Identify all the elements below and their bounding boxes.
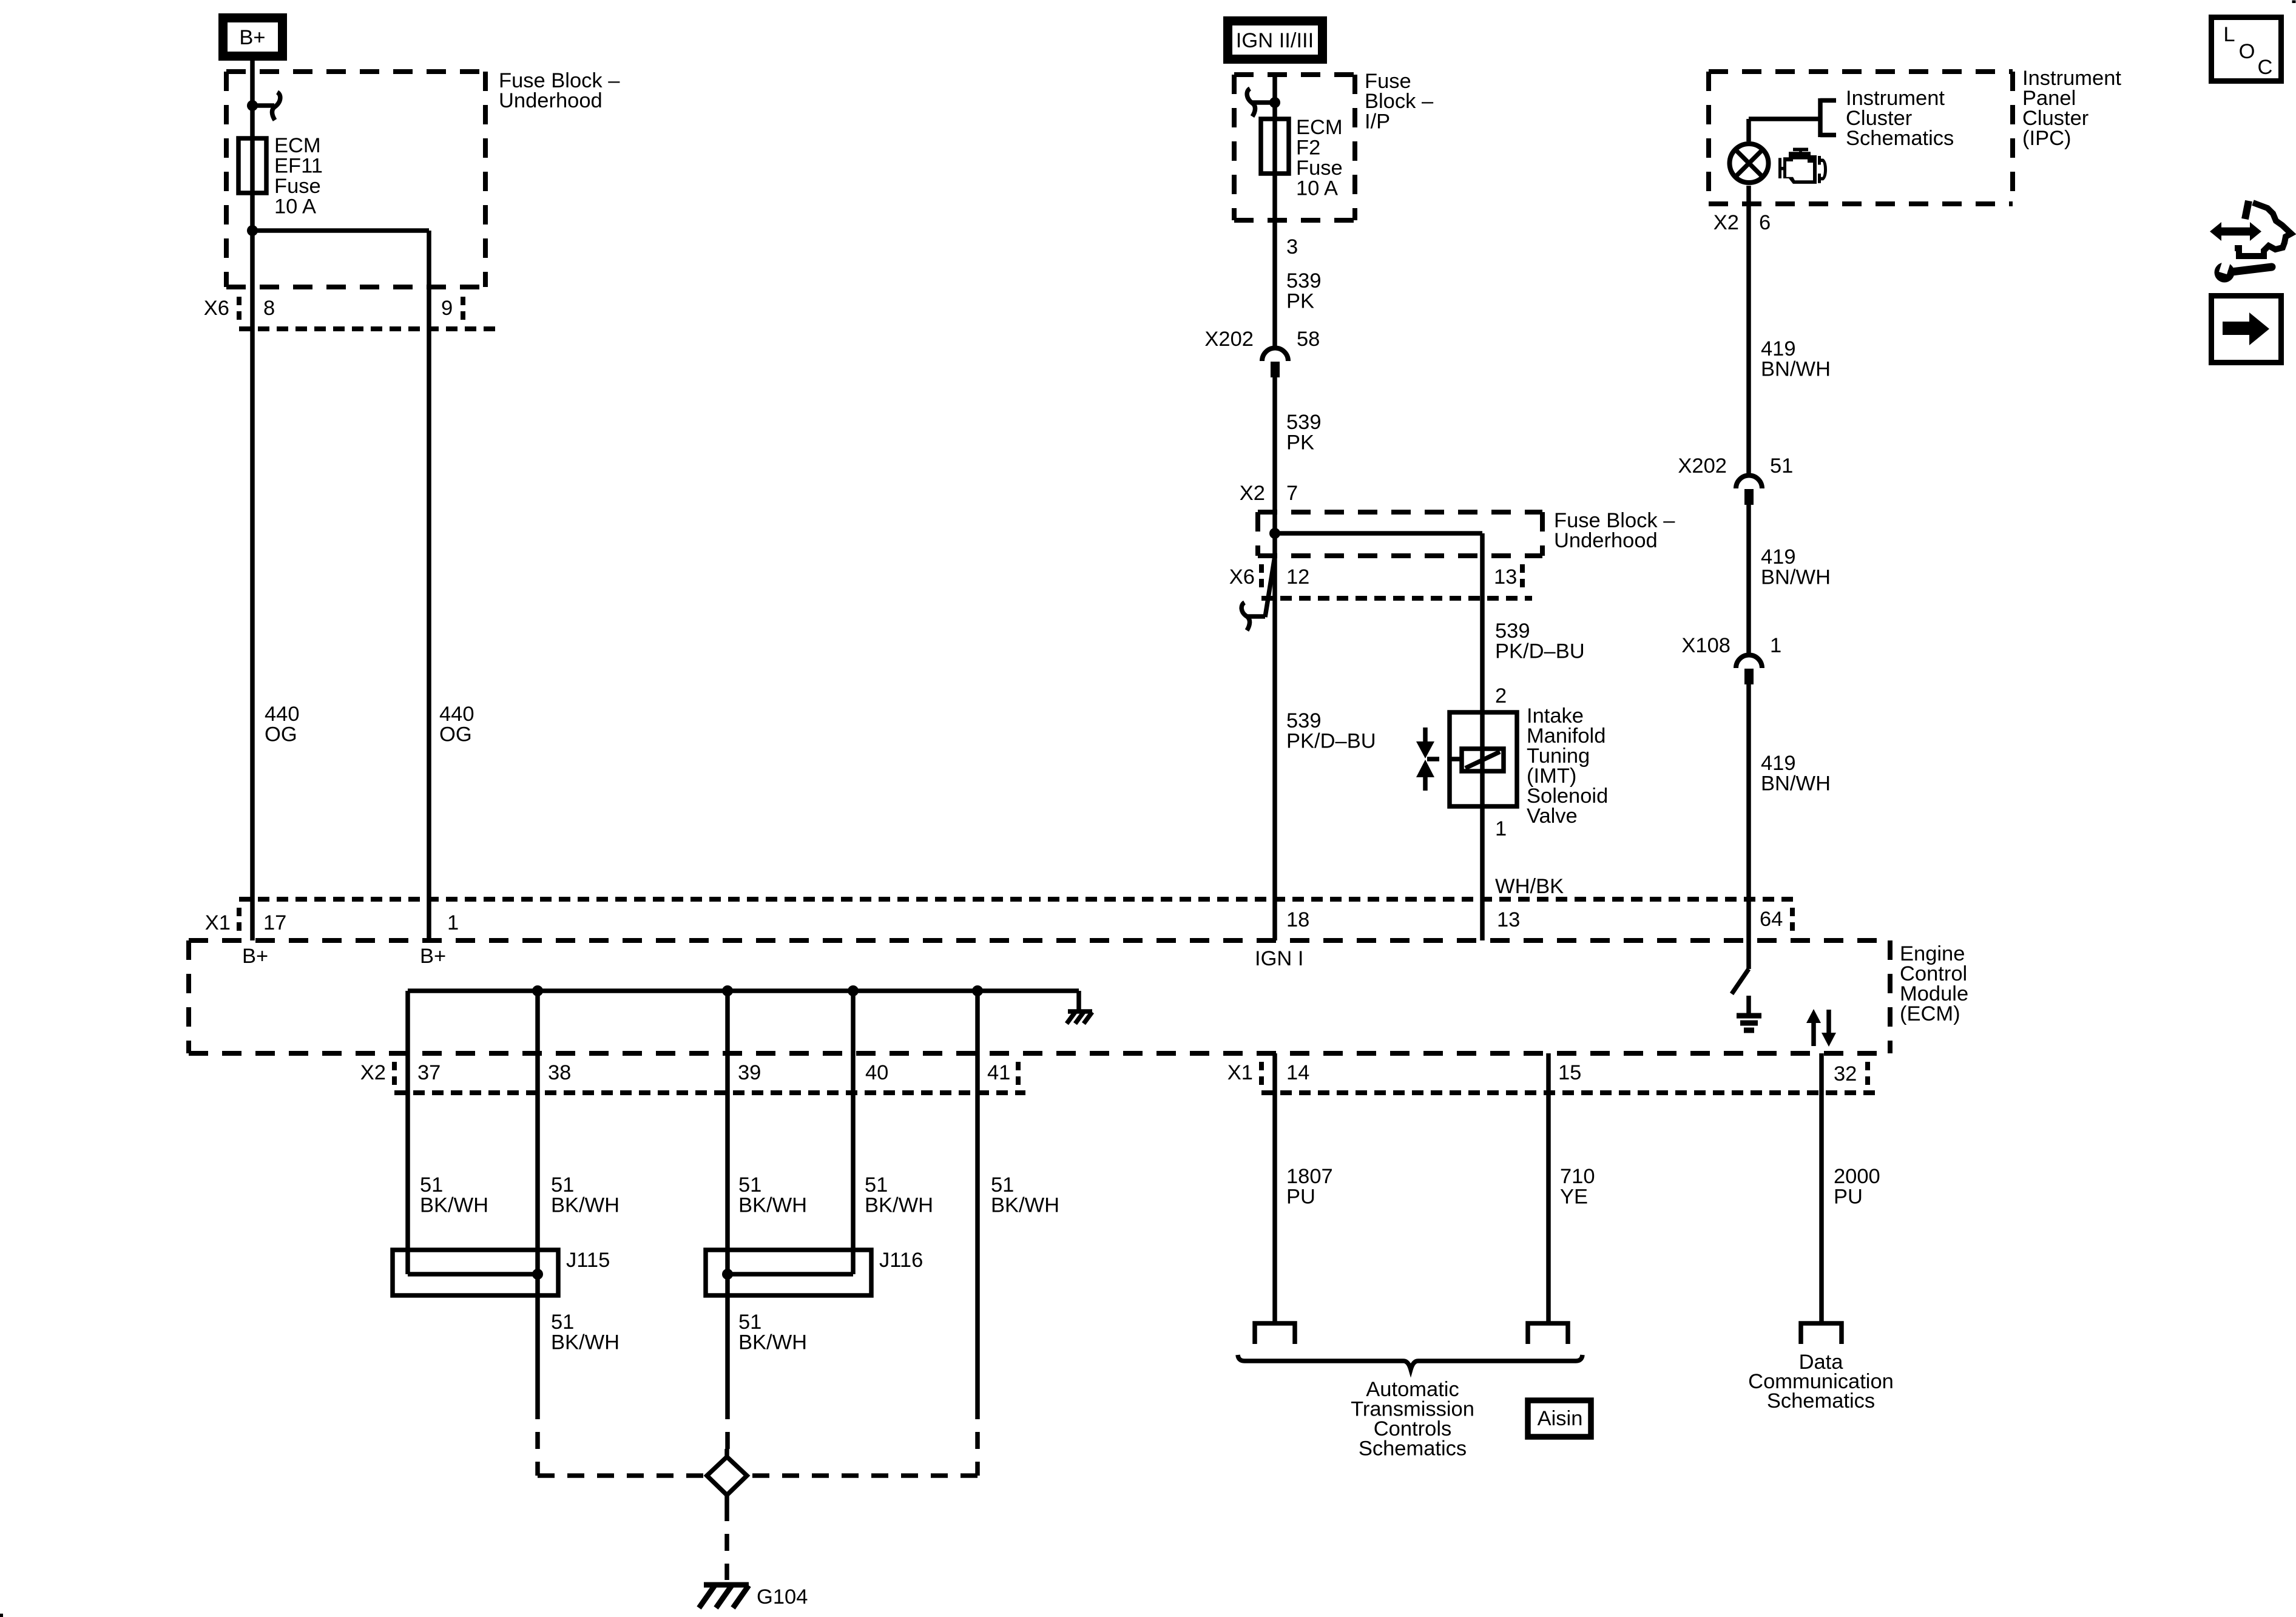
svg-text:419: 419: [1761, 752, 1796, 775]
svg-text:17: 17: [263, 911, 286, 934]
svg-text:12: 12: [1286, 565, 1309, 589]
svg-text:BK/WH: BK/WH: [738, 1194, 807, 1217]
ground: internal ECM ground: [1737, 996, 1761, 1030]
serial data arrows (bidirectional): [1806, 1009, 1836, 1047]
svg-text:F2: F2: [1296, 137, 1320, 160]
svg-text:1: 1: [1495, 817, 1507, 840]
svg-text:13: 13: [1497, 908, 1520, 931]
svg-text:X2: X2: [1240, 482, 1265, 505]
wire label: 440 OG (right): [439, 703, 474, 746]
svg-text:(IPC): (IPC): [2022, 127, 2071, 150]
node: junction dot at clip in I/P block: [1269, 97, 1280, 108]
wire label: 539 PK/D-BU (right wire): [1495, 619, 1585, 663]
wire label: 51 BK/WH (pin 41): [991, 1173, 1059, 1217]
engine icon (check engine): [1778, 148, 1827, 184]
wire label: 51 BK/WH below J115: [551, 1311, 620, 1354]
svg-text:G104: G104: [757, 1585, 808, 1609]
wire: pin 32 down: [1819, 1053, 1824, 1323]
svg-text:BN/WH: BN/WH: [1761, 566, 1831, 589]
svg-text:13: 13: [1494, 565, 1517, 589]
svg-text:8: 8: [263, 297, 275, 320]
svg-text:OG: OG: [439, 723, 472, 746]
wire: 419 BN/WH between X202 and X108: [1746, 505, 1751, 653]
wire: ground pin 41: [975, 991, 980, 1402]
node: bus junction dot pin 38: [532, 985, 543, 996]
svg-text:3: 3: [1286, 235, 1298, 258]
svg-text:BN/WH: BN/WH: [1761, 772, 1831, 795]
label: Instrument Panel Cluster (IPC): [2022, 67, 2121, 150]
svg-text:539: 539: [1495, 619, 1530, 643]
node: bus junction dot pin 39: [722, 985, 733, 996]
forward arrow box: [2212, 296, 2281, 363]
terminal: off-page connector pin 32: [1801, 1323, 1842, 1344]
switch: MIL driver inside ECM: [1732, 940, 1749, 994]
node: junction dot at clip, top-left: [247, 100, 258, 111]
svg-text:440: 440: [265, 703, 300, 726]
svg-text:X202: X202: [1678, 454, 1727, 478]
wire label: 51 BK/WH (pin 38): [551, 1173, 620, 1217]
wire: pin 15 down: [1546, 1053, 1551, 1323]
wire: branch to pin 9: [252, 228, 429, 233]
connector X1 row into ECM (pins 17 and 1): [205, 899, 1793, 934]
wire label: 539 PK/D-BU (left wire): [1286, 709, 1376, 753]
lamp: malfunction indicator lamp: [1730, 144, 1769, 183]
Instrument Panel Cluster dashed box: [1709, 72, 2013, 204]
wire label: 539 PK (upper): [1286, 269, 1322, 313]
svg-text:IGN I: IGN I: [1255, 947, 1304, 970]
svg-text:51: 51: [991, 1173, 1014, 1197]
brace: automatic transmission controls: [1238, 1355, 1582, 1369]
connector X202 pin 51 (inline): [1678, 454, 1793, 505]
label: Instrument Cluster Schematics: [1846, 87, 1954, 150]
svg-text:38: 38: [548, 1061, 571, 1084]
svg-text:2: 2: [1495, 684, 1507, 707]
svg-text:YE: YE: [1560, 1186, 1588, 1209]
svg-text:10 A: 10 A: [1296, 177, 1338, 200]
svg-text:58: 58: [1297, 328, 1320, 351]
svg-text:PK/D–BU: PK/D–BU: [1495, 640, 1585, 663]
svg-text:32: 32: [1834, 1062, 1857, 1085]
connector X108 pin 1 (inline): [1681, 634, 1781, 684]
svg-text:9: 9: [441, 297, 453, 320]
LOC reference box: [2212, 18, 2281, 81]
wire label: 539 PK (lower): [1286, 411, 1322, 454]
svg-text:14: 14: [1286, 1061, 1309, 1084]
wire: ground pin 39: [725, 991, 730, 1402]
svg-text:Fuse: Fuse: [1296, 157, 1343, 180]
svg-text:IGN II/III: IGN II/III: [1236, 29, 1314, 52]
svg-text:BK/WH: BK/WH: [991, 1194, 1059, 1217]
wire: branch to pin 13: [1275, 531, 1482, 536]
svg-text:PU: PU: [1834, 1186, 1863, 1209]
svg-text:37: 37: [417, 1061, 441, 1084]
label: ECM F2 Fuse 10 A: [1296, 116, 1343, 200]
svg-text:51: 51: [420, 1173, 443, 1197]
svg-text:Valve: Valve: [1527, 805, 1578, 828]
node: splice diamond: [707, 1449, 747, 1504]
svg-text:B+: B+: [242, 945, 268, 968]
valve symbol (two triangles): [1416, 727, 1462, 791]
label: Fuse Block - Underhood: [499, 69, 620, 112]
wire label: 51 BK/WH (pin 39): [738, 1173, 807, 1217]
svg-text:10 A: 10 A: [274, 195, 316, 218]
wire: dashed ground bus left of diamond: [538, 1473, 704, 1478]
wire: dashed drop to G104: [724, 1504, 729, 1580]
wire: pin 14 down: [1272, 1053, 1277, 1323]
svg-text:BK/WH: BK/WH: [551, 1194, 620, 1217]
svg-text:Schematics: Schematics: [1359, 1437, 1467, 1460]
svg-text:X2: X2: [360, 1061, 386, 1084]
fuse block I/P box: [1234, 75, 1355, 220]
connector X202 pin 58 (inline): [1204, 328, 1320, 377]
svg-text:440: 440: [439, 703, 474, 726]
wire: 419 BN/WH from IPC to X202: [1746, 186, 1751, 473]
wire: ground pin 37: [405, 991, 410, 1274]
connector X1 row under ECM (pins 14, 15, 32): [1227, 1061, 1875, 1093]
svg-text:PK/D–BU: PK/D–BU: [1286, 730, 1376, 753]
svg-text:710: 710: [1560, 1165, 1595, 1188]
page mark top right: [2292, 1, 2296, 4]
page mark bottom left: [0, 1614, 3, 1617]
svg-text:EF11: EF11: [274, 155, 323, 178]
wire label: 440 OG (left): [265, 703, 300, 746]
fuse ECM EF11 10A: [238, 138, 266, 193]
svg-text:18: 18: [1286, 908, 1309, 931]
label: Automatic Transmission Controls Schematics: [1351, 1378, 1474, 1460]
svg-text:BK/WH: BK/WH: [738, 1331, 807, 1354]
connector clip symbol at X6 pin 12 (left-facing with lead): [1241, 556, 1275, 630]
fuse block underhood box (middle): [1258, 512, 1542, 556]
wire label: 51 BK/WH below J116: [738, 1311, 807, 1354]
Engine Control Module dashed box: [189, 940, 1890, 1053]
svg-text:539: 539: [1286, 709, 1322, 732]
connector X2 pin 7 label: [1240, 482, 1298, 505]
svg-text:7: 7: [1286, 482, 1298, 505]
connector clip symbol (right-facing): [252, 92, 280, 120]
wire: internal ground bus in ECM: [408, 988, 1079, 993]
ground: internal chassis ground at bus end: [1067, 1011, 1092, 1024]
connector clip symbol (left-facing): [1247, 89, 1275, 116]
B+ power symbol box: [223, 18, 283, 56]
connector X2 pin 6 label: [1714, 211, 1771, 234]
wire: ground pin 40: [851, 991, 856, 1274]
label: Fuse Block - Underhood (middle): [1554, 509, 1675, 552]
wire: 419 BN/WH to ECM pin 64: [1746, 684, 1751, 940]
svg-text:O: O: [2239, 40, 2255, 63]
service/repair hand icon: [2210, 201, 2291, 283]
svg-text:X1: X1: [1227, 1061, 1253, 1084]
svg-text:2000: 2000: [1834, 1165, 1880, 1188]
svg-text:X6: X6: [1229, 565, 1255, 589]
Aisin box: [1528, 1400, 1591, 1437]
pin 64 label (ECM): [1760, 908, 1792, 934]
svg-text:1: 1: [1770, 634, 1781, 657]
wire label: 51 BK/WH (pin 40): [865, 1173, 933, 1217]
svg-text:419: 419: [1761, 337, 1796, 360]
svg-text:51: 51: [551, 1173, 574, 1197]
ground G104: [699, 1585, 808, 1609]
wire: dashed ground run from J116 leg: [725, 1402, 730, 1450]
svg-text:51: 51: [738, 1173, 761, 1197]
svg-text:Schematics: Schematics: [1767, 1389, 1875, 1413]
svg-text:J115: J115: [566, 1249, 610, 1272]
svg-text:B+: B+: [420, 945, 446, 968]
terminal: off-page connector pin 14: [1255, 1323, 1295, 1344]
svg-text:X1: X1: [205, 911, 231, 934]
node: bus junction dot pin 41: [972, 985, 983, 996]
svg-text:51: 51: [738, 1311, 761, 1334]
node: junction dot in middle fuse block: [1269, 528, 1280, 539]
wire: ground pin 38: [535, 991, 540, 1402]
svg-text:L: L: [2223, 23, 2235, 46]
svg-text:WH/BK: WH/BK: [1495, 875, 1564, 898]
wire: 539 PK/D-BU branch down to IMT valve: [1480, 533, 1485, 940]
svg-text:BK/WH: BK/WH: [420, 1194, 488, 1217]
svg-text:51: 51: [1770, 454, 1793, 478]
svg-text:6: 6: [1759, 211, 1771, 234]
wire: lamp to schematic bracket: [1749, 119, 1820, 141]
label: Data Communication Schematics: [1748, 1351, 1894, 1413]
solenoid coil symbol: [1462, 749, 1504, 771]
label: Intake Manifold Tuning (IMT) Solenoid Valve: [1527, 704, 1608, 828]
svg-text:15: 15: [1558, 1061, 1581, 1084]
IGN II/III power symbol box: [1228, 21, 1323, 59]
wire: second B+ feed down to ECM pin 1: [427, 231, 431, 940]
wire label: 419 BN/WH (middle): [1761, 545, 1831, 589]
label: Engine Control Module (ECM): [1900, 942, 1968, 1025]
svg-text:BK/WH: BK/WH: [865, 1194, 933, 1217]
svg-text:PU: PU: [1286, 1186, 1315, 1209]
svg-text:C: C: [2258, 56, 2273, 79]
svg-text:Block –: Block –: [1365, 90, 1434, 113]
label: Fuse Block - I/P: [1365, 70, 1434, 133]
svg-text:X6: X6: [204, 297, 229, 320]
node: bus junction dot pin 40: [848, 985, 859, 996]
svg-text:539: 539: [1286, 269, 1322, 292]
svg-text:X202: X202: [1204, 328, 1254, 351]
wire: dashed ground run from J115 leg: [535, 1402, 540, 1476]
svg-text:Fuse: Fuse: [274, 175, 321, 198]
svg-text:X2: X2: [1714, 211, 1739, 234]
svg-text:(ECM): (ECM): [1900, 1002, 1960, 1025]
wire label: 710 YE: [1560, 1165, 1595, 1209]
svg-text:PK: PK: [1286, 431, 1314, 454]
wire label: 2000 PU: [1834, 1165, 1880, 1209]
wire: dashed ground run from pin 41: [975, 1402, 980, 1476]
svg-text:539: 539: [1286, 411, 1322, 434]
wire: dashed ground bus right of diamond: [752, 1473, 977, 1478]
wire: B+ down through fuse EF11 to ECM pin 17: [250, 61, 255, 940]
svg-text:B+: B+: [239, 26, 265, 49]
connector X6 row (fuse block bottom, pins 8 and 9): [204, 297, 496, 329]
bracket: to Instrument Cluster Schematics: [1820, 98, 1836, 137]
svg-text:PK: PK: [1286, 290, 1314, 313]
svg-text:40: 40: [865, 1061, 888, 1084]
fuse ECM F2 10A: [1261, 119, 1289, 174]
wire label: 419 BN/WH (upper): [1761, 337, 1831, 381]
svg-text:ECM: ECM: [274, 134, 321, 157]
wire: 539 PK from X202 to ECM pin 18: [1272, 377, 1277, 940]
svg-text:419: 419: [1761, 545, 1796, 569]
svg-text:I/P: I/P: [1365, 110, 1390, 133]
svg-text:OG: OG: [265, 723, 297, 746]
wire label: 1807 PU: [1286, 1165, 1333, 1209]
svg-text:X108: X108: [1681, 634, 1730, 657]
terminal: off-page connector pin 15: [1528, 1323, 1568, 1344]
svg-text:1: 1: [447, 911, 459, 934]
svg-text:41: 41: [987, 1061, 1010, 1084]
wire label: 419 BN/WH (lower): [1761, 752, 1831, 795]
svg-text:1807: 1807: [1286, 1165, 1333, 1188]
splice pack J115: [393, 1249, 610, 1295]
splice pack J116: [706, 1249, 923, 1295]
IMT solenoid valve box: [1450, 712, 1517, 806]
label: ECM EF11 Fuse 10 A: [274, 134, 323, 218]
svg-text:51: 51: [551, 1311, 574, 1334]
svg-text:J116: J116: [879, 1249, 923, 1272]
svg-text:Underhood: Underhood: [1554, 529, 1658, 552]
svg-text:ECM: ECM: [1296, 116, 1343, 139]
svg-text:64: 64: [1760, 908, 1783, 931]
svg-text:39: 39: [738, 1061, 761, 1084]
svg-text:BN/WH: BN/WH: [1761, 358, 1831, 381]
svg-text:Schematics: Schematics: [1846, 127, 1954, 150]
wire: IGN feed down through ECM F2 fuse to X202: [1272, 75, 1277, 347]
connector X2 row under ECM (pins 37-41): [360, 1061, 1025, 1093]
svg-text:BK/WH: BK/WH: [551, 1331, 620, 1354]
connector X6 row (middle fuse block, pins 12 and 13): [1229, 564, 1532, 598]
wire label: 51 BK/WH (pin 37): [420, 1173, 488, 1217]
svg-text:Underhood: Underhood: [499, 89, 603, 112]
svg-text:51: 51: [865, 1173, 888, 1197]
node: junction dot below fuse: [247, 225, 258, 236]
fuse block underhood box (top left): [226, 72, 485, 287]
svg-text:Aisin: Aisin: [1538, 1407, 1583, 1430]
